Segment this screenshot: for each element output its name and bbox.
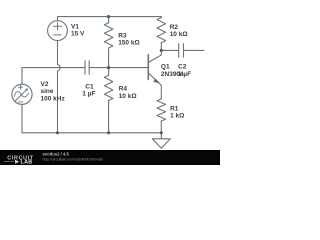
resistor R3	[104, 23, 113, 48]
wire collector node to C2	[161, 49, 178, 51]
svg-text:100 kHz: 100 kHz	[41, 95, 66, 102]
capacitor C2	[179, 44, 184, 58]
svg-text:10 kΩ: 10 kΩ	[119, 93, 137, 100]
wire C1 to base node and Q1 base	[89, 67, 148, 69]
svg-text:15 V: 15 V	[71, 30, 85, 37]
svg-text:C1: C1	[85, 83, 94, 90]
voltage source V1	[48, 21, 68, 41]
wire R3 bottom to base node	[108, 48, 110, 68]
svg-text:V1: V1	[71, 23, 79, 30]
svg-text:V2: V2	[41, 81, 49, 88]
resistor R4	[104, 75, 113, 100]
wire R2 bottom to collector node	[160, 43, 162, 51]
svg-text:C2: C2	[178, 63, 187, 70]
wire V2 to C1	[22, 67, 85, 69]
footer watermark bar	[0, 150, 220, 166]
svg-text:1 µF: 1 µF	[178, 71, 191, 78]
svg-text:LAB: LAB	[21, 160, 33, 165]
node collector junction	[160, 49, 163, 52]
svg-text:Q1: Q1	[161, 63, 170, 70]
svg-text:R2: R2	[170, 24, 179, 31]
svg-text:R4: R4	[119, 86, 128, 93]
wire R4 top stub	[108, 68, 110, 76]
node bottom rail R4 junction	[107, 131, 110, 134]
resistor R2	[157, 18, 166, 43]
svg-text:1 µF: 1 µF	[82, 91, 95, 98]
svg-text:sine: sine	[41, 88, 54, 95]
wire top supply rail V1 to R2	[58, 16, 162, 18]
node bottom rail V1 junction	[56, 131, 59, 134]
svg-text:1 kΩ: 1 kΩ	[170, 113, 184, 120]
svg-text:R1: R1	[170, 106, 179, 113]
wire V1 top stub to rail	[57, 17, 59, 21]
wire C2 output stub	[184, 49, 205, 51]
transistor Q1 2N3904	[148, 50, 161, 98]
wire R3 top stub	[108, 17, 110, 23]
ground	[152, 139, 170, 149]
node top rail R3 junction	[107, 15, 110, 18]
capacitor C1	[85, 61, 89, 75]
svg-text:10 kΩ: 10 kΩ	[170, 31, 188, 38]
wire V1 bottom to rail with hop over signal wire	[58, 41, 60, 133]
wire bottom ground rail V2 to R1	[22, 132, 161, 134]
wire V2 bottom to rail	[21, 104, 23, 132]
wire ground stub	[160, 133, 162, 139]
node base divider junction	[107, 66, 110, 69]
CircuitLab logo	[4, 156, 34, 166]
wire V2 top stub	[21, 68, 23, 85]
voltage source V2 sine	[12, 84, 32, 104]
wire R1 bottom to rail	[160, 121, 162, 133]
svg-text:exodus2 / 4.5: exodus2 / 4.5	[43, 152, 70, 157]
wire R4 bottom to rail	[108, 101, 110, 133]
resistor R1	[157, 99, 166, 121]
svg-text:150 kΩ: 150 kΩ	[118, 40, 139, 47]
svg-text:http://circuitlab.com/c6e4bbb5: http://circuitlab.com/c6e4bbb5mbm8/	[43, 157, 104, 161]
wire R2 top stub	[160, 16, 162, 19]
svg-text:R3: R3	[118, 32, 127, 39]
node bottom rail R1 ground junction	[160, 131, 163, 134]
